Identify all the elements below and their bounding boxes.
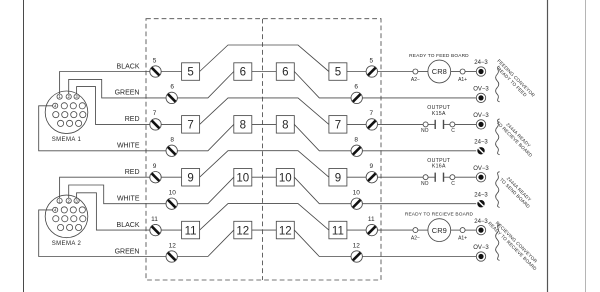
svg-text:7: 7 — [187, 120, 193, 132]
board terminal OV-3 row7 — [476, 120, 485, 129]
wire terminal 9 left lead — [161, 176, 181, 178]
wire box 11 to right screw — [347, 229, 366, 231]
svg-text:OV−3: OV−3 — [473, 87, 489, 93]
SMEMA 1 pin 4 — [53, 103, 58, 108]
wire contact bar to C — [444, 176, 451, 178]
contact K15A C terminal — [450, 122, 455, 127]
board terminal OV-3 row9 — [476, 173, 485, 182]
SMEMA 1 pin 2 — [66, 94, 71, 99]
board terminal 24-3 row8 (screw) — [477, 147, 484, 154]
svg-text:SMEMA 2: SMEMA 2 — [52, 241, 82, 247]
wire to board terminal — [362, 97, 476, 99]
svg-text:11: 11 — [151, 216, 158, 223]
svg-text:5: 5 — [187, 67, 193, 79]
wire between mid boxes 10 — [252, 176, 276, 178]
node box 6 mid-right — [276, 63, 294, 81]
SMEMA 1 contact — [70, 103, 76, 109]
node box 8 mid-right — [276, 116, 294, 134]
svg-text:11: 11 — [332, 225, 344, 237]
SMEMA 1 contact — [80, 112, 86, 118]
wire SMEMA2 pin3 to terminal 11 (BLACK) — [77, 193, 150, 230]
node box 11 left — [182, 221, 200, 239]
svg-text:K15A: K15A — [432, 111, 446, 117]
node box 7 right — [329, 116, 347, 134]
sheet border right inner — [547, 0, 549, 292]
contact bars K16A — [434, 173, 436, 182]
wire contact bar to C — [444, 123, 451, 125]
SMEMA 2 pin 1 — [57, 198, 62, 203]
terminal screw 8 right — [351, 145, 362, 156]
node box 12 mid-right — [276, 221, 294, 239]
contact K16A NO terminal — [423, 175, 428, 180]
wire to board terminal — [362, 150, 476, 152]
svg-text:GREEN: GREEN — [115, 90, 140, 97]
wire crossover top arc 7 — [200, 98, 329, 125]
brace rows group — [496, 66, 500, 102]
wire C to board terminal — [455, 176, 477, 178]
SMEMA 1 contact — [79, 103, 85, 109]
contact K15A NO terminal — [423, 122, 428, 127]
wire SMEMA2 pin1 to terminal 9 (RED) — [60, 177, 150, 198]
svg-text:5: 5 — [153, 57, 157, 64]
svg-text:24−3: 24−3 — [474, 192, 488, 198]
wire NO to contact bar — [428, 176, 435, 178]
board terminal 24-3 row11 — [476, 225, 485, 234]
wire to board terminal — [362, 203, 476, 205]
SMEMA 1 contact — [71, 112, 77, 118]
svg-text:10: 10 — [169, 190, 177, 197]
node box 10 mid-left — [234, 169, 252, 187]
terminal screw 6 left — [166, 92, 177, 103]
node box 8 mid-left — [234, 116, 252, 134]
SMEMA 1 contact — [67, 120, 73, 126]
svg-text:CR9: CR9 — [432, 226, 447, 235]
terminal screw 7 right — [366, 119, 377, 130]
connector SMEMA 1 body — [45, 91, 88, 134]
svg-text:READY TO RECIEVE BOARD: READY TO RECIEVE BOARD — [405, 212, 474, 218]
wire SMEMA2 pin4 to terminal 12 (GREEN) — [39, 210, 166, 257]
node box 10 mid-right — [276, 169, 294, 187]
wire box 5 to right screw — [347, 71, 366, 73]
node box 5 right — [329, 63, 347, 81]
wire SMEMA1 pin4 to terminal 8 (WHITE) — [39, 106, 166, 151]
SMEMA 2 contact — [80, 216, 86, 222]
svg-text:24−3: 24−3 — [474, 140, 488, 146]
terminal screw 12 left — [166, 251, 177, 262]
rotated annotation 2444A READY — [495, 116, 537, 158]
terminal screw 11 left — [150, 224, 161, 235]
svg-text:12: 12 — [279, 225, 292, 237]
svg-text:6: 6 — [240, 67, 246, 79]
svg-text:5: 5 — [369, 57, 373, 64]
svg-text:9: 9 — [335, 172, 341, 184]
brace rows group — [496, 119, 500, 155]
SMEMA 1 pin 1 — [57, 94, 62, 99]
sheet border left — [23, 0, 25, 292]
wire to contact K16A — [378, 176, 424, 178]
SMEMA 2 pin 2 — [66, 198, 71, 203]
terminal screw 12 right — [351, 251, 362, 262]
terminal screw 11 right — [366, 224, 377, 235]
svg-text:7: 7 — [153, 110, 157, 117]
relay coil CR8 — [428, 60, 451, 83]
svg-text:NO: NO — [421, 128, 429, 134]
svg-text:OV−3: OV−3 — [473, 113, 489, 119]
wire 6 left screw to mid box — [177, 72, 233, 98]
svg-text:NO: NO — [421, 181, 429, 187]
svg-text:GREEN: GREEN — [115, 248, 140, 255]
svg-text:C: C — [451, 128, 455, 134]
svg-text:11: 11 — [185, 225, 197, 237]
wire SMEMA1 pin1 to terminal 5 (BLACK) — [60, 72, 150, 95]
svg-text:11: 11 — [368, 216, 375, 223]
terminal screw 8 left — [166, 145, 177, 156]
svg-text:6: 6 — [354, 84, 358, 91]
svg-text:24−3: 24−3 — [474, 219, 488, 225]
wire 8 left screw to mid box — [177, 124, 233, 150]
rotated annotation FEEDING CONVEYOR — [492, 58, 536, 102]
wire between mid boxes 12 — [252, 229, 276, 231]
svg-text:WHITE: WHITE — [117, 143, 140, 150]
brace rows group — [496, 225, 500, 261]
wire box 7 to right screw — [347, 123, 366, 125]
svg-text:A1+: A1+ — [458, 77, 467, 83]
SMEMA 2 contact — [58, 224, 64, 230]
terminal screw 5 left — [150, 66, 161, 77]
wire terminal 5 left lead — [161, 71, 181, 73]
svg-text:A2−: A2− — [411, 235, 420, 241]
dashed enclosure box — [146, 19, 381, 280]
wire A1+ to board terminal — [465, 71, 476, 73]
svg-text:12: 12 — [236, 225, 249, 237]
sheet border right outer — [585, 0, 587, 292]
SMEMA 2 contact — [79, 207, 85, 213]
wire coil to A1+ — [451, 229, 461, 231]
svg-text:OV−3: OV−3 — [473, 166, 489, 172]
relay coil CR9 — [428, 219, 451, 242]
wire to board terminal — [362, 256, 476, 258]
wire 10 mid box to right screw — [294, 177, 351, 204]
node box 6 mid-left — [234, 63, 252, 81]
svg-text:A1+: A1+ — [458, 235, 467, 241]
svg-text:7: 7 — [369, 110, 373, 117]
wire A2- to coil — [418, 71, 428, 73]
dashed divider line — [262, 19, 264, 280]
terminal screw 5 right — [366, 66, 377, 77]
svg-text:BLACK: BLACK — [117, 63, 140, 70]
wire terminal 11 left lead — [161, 229, 181, 231]
terminal screw 7 left — [150, 119, 161, 130]
wire 8 mid box to right screw — [294, 124, 351, 150]
svg-text:K16A: K16A — [432, 164, 446, 170]
svg-text:RED: RED — [125, 169, 140, 176]
node box 7 left — [182, 116, 200, 134]
SMEMA 2 contact — [62, 216, 68, 222]
node box 5 left — [182, 63, 200, 81]
terminal screw 10 right — [351, 198, 362, 209]
svg-text:6: 6 — [170, 84, 174, 91]
svg-text:CR8: CR8 — [432, 67, 447, 76]
SMEMA 1 contact — [61, 103, 67, 109]
wire 6 mid box to right screw — [294, 72, 351, 98]
svg-text:A2−: A2− — [411, 77, 420, 83]
contact bars K15A — [434, 120, 436, 129]
wire 12 mid box to right screw — [294, 230, 351, 256]
svg-text:RED: RED — [125, 116, 140, 123]
SMEMA 1 contact — [58, 120, 64, 126]
wire to contact K15A — [378, 123, 424, 125]
SMEMA 1 pin 3 — [74, 94, 79, 99]
svg-text:8: 8 — [240, 120, 246, 132]
wire between mid boxes 6 — [252, 71, 276, 73]
board terminal OV-3 row6 — [476, 93, 485, 102]
wire A2- to coil — [418, 229, 428, 231]
wire to relay CR8 — [378, 71, 414, 73]
wire SMEMA2 pin2 to terminal 10 (WHITE) — [69, 185, 166, 204]
svg-text:10: 10 — [353, 190, 361, 197]
wire to relay CR9 — [378, 229, 414, 231]
wire between mid boxes 8 — [252, 123, 276, 125]
SMEMA 2 contact — [76, 224, 82, 230]
wire crossover top arc 9 — [200, 151, 329, 178]
contact K16A C terminal — [450, 175, 455, 180]
svg-text:10: 10 — [236, 172, 249, 184]
svg-text:9: 9 — [369, 163, 373, 170]
terminal screw 9 left — [150, 172, 161, 183]
svg-text:9: 9 — [187, 172, 193, 184]
svg-text:5: 5 — [335, 67, 341, 79]
terminal screw 6 right — [351, 92, 362, 103]
node box 12 mid-left — [234, 221, 252, 239]
rotated annotation RECIEVING CONVEYOR — [487, 217, 542, 272]
wire crossover top arc 11 — [200, 204, 329, 231]
svg-text:OV−3: OV−3 — [473, 245, 489, 251]
board terminal 24-3 row5 — [476, 67, 485, 76]
svg-text:READY TO FEED BOARD: READY TO FEED BOARD — [409, 53, 469, 59]
wire crossover top arc 5 — [200, 45, 329, 72]
wire 12 left screw to mid box — [177, 230, 233, 256]
svg-text:8: 8 — [170, 137, 174, 144]
wire C to board terminal — [455, 123, 477, 125]
SMEMA 1 contact — [53, 112, 59, 118]
svg-text:C: C — [451, 181, 455, 187]
svg-text:BLACK: BLACK — [117, 222, 140, 229]
SMEMA 2 contact — [53, 216, 59, 222]
wire A1+ to board terminal — [465, 229, 476, 231]
SMEMA 2 contact — [61, 207, 67, 213]
terminal screw 9 right — [366, 172, 377, 183]
SMEMA 1 contact — [76, 120, 82, 126]
board terminal 24-3 row10 (screw) — [477, 200, 484, 207]
svg-text:SMEMA 1: SMEMA 1 — [52, 137, 82, 143]
node box 9 right — [329, 169, 347, 187]
wire coil to A1+ — [451, 71, 461, 73]
wire box 9 to right screw — [347, 176, 366, 178]
svg-text:10: 10 — [279, 172, 292, 184]
node box 9 left — [182, 169, 200, 187]
wire SMEMA1 pin2 to terminal 6 (GREEN) — [69, 79, 166, 98]
SMEMA 2 contact — [71, 216, 77, 222]
svg-text:WHITE: WHITE — [117, 196, 140, 203]
connector SMEMA 2 body — [45, 195, 88, 238]
relay CR8 A2- terminal — [413, 69, 418, 74]
svg-text:24−3: 24−3 — [474, 60, 488, 66]
SMEMA 2 pin 4 — [53, 207, 58, 212]
wire terminal 7 left lead — [161, 123, 181, 125]
SMEMA 2 pin 3 — [74, 198, 79, 203]
relay CR9 A1+ terminal — [460, 228, 465, 233]
SMEMA 1 contact — [62, 112, 68, 118]
rotated annotation 2444A READY — [499, 173, 536, 210]
terminal screw 10 left — [166, 198, 177, 209]
relay CR9 A2- terminal — [413, 228, 418, 233]
wire SMEMA1 pin3 to terminal 7 (RED) — [77, 87, 150, 125]
svg-text:12: 12 — [169, 242, 177, 249]
svg-text:7: 7 — [335, 120, 341, 132]
node box 11 right — [329, 221, 347, 239]
brace rows group — [496, 172, 500, 208]
board terminal OV-3 row12 — [476, 252, 485, 261]
SMEMA 2 contact — [70, 207, 76, 213]
svg-text:9: 9 — [153, 163, 157, 170]
wire NO to contact bar — [428, 123, 435, 125]
svg-text:8: 8 — [354, 137, 358, 144]
SMEMA 2 contact — [67, 224, 73, 230]
relay CR8 A1+ terminal — [460, 69, 465, 74]
svg-text:12: 12 — [353, 242, 361, 249]
svg-text:6: 6 — [282, 67, 288, 79]
svg-text:8: 8 — [282, 120, 288, 132]
wire 10 left screw to mid box — [177, 177, 233, 204]
